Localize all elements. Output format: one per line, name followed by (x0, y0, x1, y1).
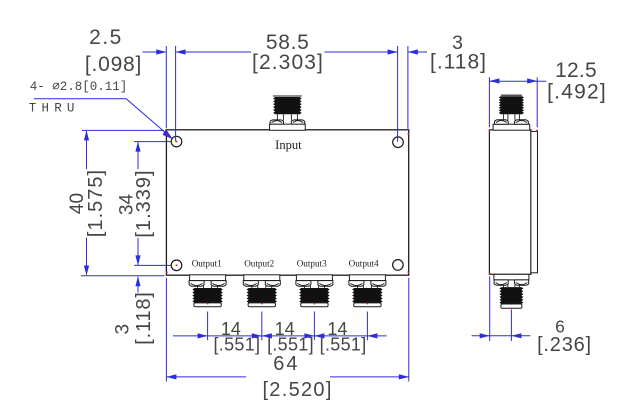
dim text [.098] (85, 53, 142, 76)
arrow 34 bottom (135, 255, 140, 265)
output2 SMA connector (243, 275, 280, 307)
dim text [1.575] (85, 169, 107, 237)
dim 3 left line (137, 277, 139, 293)
svg-text:[.492]: [.492] (547, 81, 607, 104)
dim text [2.520] (262, 379, 332, 401)
dim 40 line upper segment (86, 131, 88, 169)
dim text [.551] b (267, 334, 314, 354)
side view cover plate (531, 131, 538, 272)
label Output4 (349, 259, 379, 269)
label Output2 (244, 259, 274, 269)
side input SMA connector (493, 95, 530, 130)
svg-text:[1.575]: [1.575] (85, 169, 107, 237)
dim text 2.5 (89, 26, 123, 49)
dim text 34 (117, 194, 138, 216)
arrow 12.5 right (527, 78, 537, 83)
svg-text:64: 64 (273, 353, 299, 375)
extension line hole center right (397, 46, 399, 142)
input SMA connector (270, 96, 306, 130)
extension line body right edge (407, 46, 409, 129)
extension line bottom edge left (81, 275, 165, 277)
svg-text:Output1: Output1 (192, 259, 222, 269)
arrow 40 top (84, 130, 89, 140)
label Input (275, 137, 302, 152)
note 4x hole diameter (30, 80, 128, 94)
label Output1 (192, 259, 222, 269)
dim 12.5 line (489, 80, 546, 82)
svg-text:[.551]: [.551] (213, 334, 260, 354)
svg-text:[.551]: [.551] (267, 334, 314, 354)
dim text 58.5 (266, 31, 310, 54)
mounting hole top-right (393, 137, 404, 148)
svg-text:4- ∅2.8[0.11]: 4- ∅2.8[0.11] (30, 80, 128, 94)
extension line 64 right (408, 278, 410, 382)
dim text [.551] a (213, 334, 260, 354)
center extension line side connector (510, 310, 512, 341)
dim text [.492] (547, 81, 607, 104)
arrow at x166 (156, 49, 166, 54)
defpoint markers (166, 129, 538, 309)
side output SMA connector (494, 274, 529, 308)
dim 6 line (472, 335, 531, 337)
extension line side left top (488, 77, 490, 127)
dim text 3 left (113, 324, 134, 335)
center extension line output1 (207, 312, 209, 341)
dim 14 line (173, 335, 387, 337)
extension line 64 left (165, 278, 167, 382)
arrow at x175 (176, 49, 186, 54)
output3 SMA connector (296, 275, 333, 307)
dim text 12.5 (555, 59, 597, 82)
dim text [2.303] (252, 51, 324, 74)
svg-text:[1.339]: [1.339] (133, 169, 155, 237)
arrow 6 left (480, 333, 490, 338)
dim text [.236] (537, 334, 592, 356)
dim text [1.339] (133, 169, 155, 237)
extension line hole bottom left (134, 264, 171, 266)
svg-text:Output4: Output4 (349, 259, 379, 269)
svg-text:Output2: Output2 (244, 259, 274, 269)
svg-text:[.098]: [.098] (85, 53, 142, 76)
extension line side left bottom (489, 276, 491, 341)
svg-text:2.5: 2.5 (89, 26, 123, 49)
arrow 6 right (511, 333, 521, 338)
arrow 34 top (135, 142, 140, 152)
label Output3 (297, 259, 327, 269)
dim text [.118] left (133, 291, 155, 344)
svg-text:[2.520]: [2.520] (262, 379, 332, 401)
svg-text:[.236]: [.236] (537, 334, 592, 356)
svg-text:3: 3 (113, 324, 134, 335)
output1 SMA connector (189, 275, 226, 307)
dim text 14 a (221, 319, 241, 339)
output4 SMA connector (349, 275, 386, 307)
side view body (489, 130, 531, 274)
arrow 40 bottom (84, 266, 89, 276)
mounting hole bottom-right (393, 260, 404, 271)
dim text [.118] top (430, 51, 487, 74)
svg-text:[.118]: [.118] (133, 291, 155, 344)
arrow pair at c2 (252, 333, 272, 338)
arrow 12.5 left (489, 78, 499, 83)
dim text [.551] c (320, 334, 367, 354)
mounting hole bottom-left (171, 260, 182, 271)
svg-text:THRU: THRU (29, 101, 80, 115)
extension line hole center left (175, 46, 177, 141)
arrow 64 left (166, 374, 176, 379)
dim text 14 b (275, 319, 295, 339)
extension line body left edge (165, 46, 167, 128)
center extension line output4 (366, 312, 368, 341)
dim text 3 top (452, 32, 463, 54)
dim 58.5 line right segment (324, 51, 397, 53)
dim 3 line right segment (408, 51, 427, 53)
center extension line output3 (313, 312, 315, 341)
dim text 40 (67, 193, 88, 214)
dim 64 line right segment (330, 376, 409, 378)
svg-text:[2.303]: [2.303] (252, 51, 324, 74)
dim 64 line left segment (166, 376, 246, 378)
front view body plate (166, 130, 408, 275)
extension line hole top left (134, 141, 171, 143)
arrow 3 left (135, 276, 140, 286)
svg-text:[.551]: [.551] (320, 334, 367, 354)
mounting hole top-left (171, 136, 182, 147)
svg-text:Output3: Output3 (297, 259, 327, 269)
dim 34 line upper segment (137, 142, 139, 169)
arrow pair at c3 (304, 333, 324, 338)
dim text 64 (273, 353, 299, 375)
dim text 6 (555, 317, 565, 337)
dim 2.5 line left segment (143, 51, 167, 53)
dim 34 line lower segment (137, 238, 139, 265)
arrow at x408 (408, 49, 418, 54)
dim 40 line lower segment (86, 238, 88, 275)
dim 58.5 line left segment (176, 51, 251, 53)
note THRU (29, 101, 80, 115)
svg-text:Input: Input (275, 137, 302, 152)
arrow at x397 (388, 49, 398, 54)
arrow 14 at c4 (367, 333, 377, 338)
arrow 64 right (399, 374, 409, 379)
dim text 14 c (327, 319, 347, 339)
extension line top edge left (82, 129, 164, 131)
center extension line output2 (261, 312, 263, 341)
arrow 14 at c1 (198, 333, 208, 338)
leader arrowhead (163, 129, 173, 139)
extension line side right top (536, 77, 538, 127)
svg-text:12.5: 12.5 (555, 59, 597, 82)
svg-text:[.118]: [.118] (430, 51, 487, 74)
leader line (34, 99, 170, 136)
